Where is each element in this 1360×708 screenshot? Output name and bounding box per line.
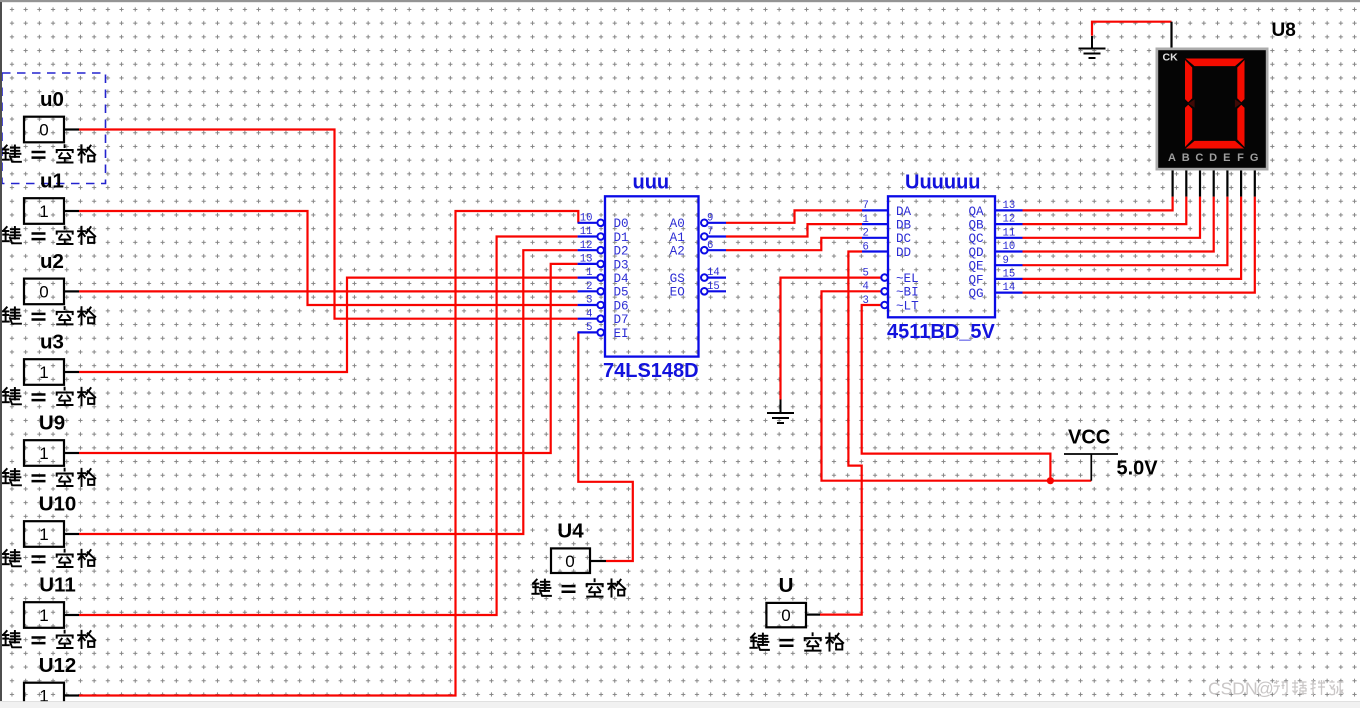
svg-text:5.0V: 5.0V (1117, 458, 1159, 480)
svg-text:14: 14 (1003, 282, 1016, 294)
svg-text:G: G (1250, 152, 1259, 164)
4511 pin 11 QC (995, 237, 1023, 239)
svg-text:15: 15 (1003, 269, 1016, 281)
4511 pin 5 ~EL (881, 274, 888, 281)
svg-text:QG: QG (969, 287, 984, 301)
74LS148 pin 3 D6 (578, 304, 597, 306)
switch U4 (key=space) (532, 519, 625, 596)
svg-text:4511BD_5V: 4511BD_5V (887, 321, 996, 343)
wire 4511 QA to display A (1023, 197, 1173, 211)
svg-text:C: C (1195, 152, 1203, 164)
svg-text:6: 6 (863, 241, 869, 253)
svg-text:CK: CK (1163, 51, 1179, 63)
svg-text:U8: U8 (1272, 20, 1296, 41)
4511 pin 14 QG (995, 292, 1023, 294)
svg-text:15: 15 (707, 281, 720, 293)
IC U5 74LS148D priority encoder (578, 172, 726, 383)
svg-text:10: 10 (1003, 241, 1016, 253)
svg-text:0: 0 (781, 606, 790, 625)
74LS148 pin 6 A2 (708, 249, 726, 251)
svg-text:D6: D6 (614, 299, 629, 313)
svg-text:14: 14 (707, 267, 720, 279)
wire 4511 QD to display D (1023, 197, 1214, 252)
svg-text:B: B (1182, 152, 1190, 164)
display CK pin lead (1170, 22, 1172, 48)
wire u2 switch to 74LS148 D5 (pin 2) (79, 290, 578, 292)
svg-text:VCC: VCC (1068, 427, 1110, 449)
svg-text:U9: U9 (39, 412, 65, 435)
wire u3 switch to 74LS148 D4 (pin 1) (79, 278, 578, 372)
svg-text:A: A (1168, 152, 1176, 164)
svg-text:DA: DA (896, 205, 912, 219)
svg-text:1: 1 (863, 214, 869, 226)
IC U7 4511BD_5V BCD to 7-seg decoder (862, 172, 1023, 344)
svg-text:QB: QB (969, 219, 985, 233)
svg-text:7: 7 (707, 226, 713, 238)
svg-text:QC: QC (969, 232, 985, 246)
switch U12 (SPDT key=space) (2, 654, 95, 708)
svg-text:4: 4 (586, 308, 592, 320)
svg-text:u0: u0 (40, 88, 64, 111)
svg-text:12: 12 (1003, 214, 1016, 226)
svg-text:EI: EI (614, 327, 629, 341)
4511 pin 15 QF (995, 278, 1023, 280)
display segment E (lit) (1185, 105, 1192, 147)
svg-text:~EL: ~EL (896, 272, 919, 286)
switch u2 (SPDT key=space) (2, 250, 95, 324)
display pin C lead (1199, 171, 1201, 197)
svg-text:Uuuuuu: Uuuuuu (905, 172, 981, 194)
wire 74LS148 A2 to 4511 DC (726, 238, 862, 250)
switch u3 (SPDT key=space) (2, 331, 95, 405)
svg-text:QF: QF (969, 273, 984, 287)
switch U11 (SPDT key=space) (2, 574, 95, 648)
display segment G (unlit) right end (1235, 99, 1241, 108)
svg-text:1: 1 (39, 202, 48, 221)
svg-text:0: 0 (39, 121, 48, 140)
watermark CSDN (1208, 679, 1344, 699)
display pin B lead (1185, 171, 1187, 197)
74LS148 pin 13 D3 (578, 263, 597, 265)
74LS148 pin 12 D2 (578, 249, 597, 251)
svg-text:9: 9 (1003, 255, 1009, 267)
svg-text:U10: U10 (39, 493, 77, 516)
74LS148 pin 2 D5 (578, 290, 597, 292)
4511 pin 9 QE (995, 264, 1023, 266)
svg-text:u3: u3 (40, 331, 64, 354)
svg-text:7: 7 (863, 200, 869, 212)
svg-text:QE: QE (969, 260, 984, 274)
svg-text:u1: u1 (40, 170, 64, 193)
display pin E lead (1226, 171, 1228, 197)
wire 4511 QC to display C (1023, 197, 1201, 238)
ground symbol below 4511 (767, 400, 794, 423)
svg-text:1: 1 (586, 267, 592, 279)
svg-text:F: F (1237, 152, 1244, 164)
display segment G (unlit) left end (1188, 99, 1194, 108)
svg-text:U12: U12 (39, 654, 77, 677)
svg-text:D3: D3 (614, 258, 629, 272)
svg-text:6: 6 (707, 240, 713, 252)
wire 4511 QE to display E (1023, 197, 1228, 266)
svg-text:2: 2 (586, 281, 592, 293)
svg-text:QD: QD (969, 246, 984, 260)
svg-text:@: @ (1256, 679, 1274, 699)
wire u1 switch to 74LS148 D6 (pin 3) (79, 211, 578, 305)
svg-text:A0: A0 (670, 217, 685, 231)
ground symbol near display CK (1078, 36, 1105, 58)
VCC power symbol 5.0V (1064, 427, 1158, 481)
74LS148 pin 11 D1 (578, 235, 597, 237)
wire 4511 ~LT (pin 3) to VCC rail (862, 305, 1051, 481)
4511 pin 6 DD (862, 250, 888, 252)
svg-text:0: 0 (565, 552, 574, 571)
wire 4511 ~EL (pin 5) to ground (781, 278, 881, 400)
display pin G lead (1254, 171, 1256, 197)
bottom scrollbar strip (0, 701, 1360, 708)
svg-text:u2: u2 (40, 250, 64, 273)
svg-text:~BI: ~BI (896, 286, 919, 300)
wire U9 switch to 74LS148 D3 (pin 13) (79, 264, 578, 453)
svg-text:1: 1 (39, 444, 48, 463)
wire U12 switch to 74LS148 D0 (pin 10) (79, 211, 578, 696)
svg-text:2: 2 (863, 228, 869, 240)
svg-text:D7: D7 (614, 313, 629, 327)
svg-text:DB: DB (896, 219, 912, 233)
svg-text:EO: EO (670, 286, 685, 300)
display segment F (lit) (1185, 60, 1192, 102)
switch U10 (SPDT key=space) (2, 493, 95, 567)
top window edge (0, 0, 1360, 2)
wire 4511 QG to display G (1023, 197, 1255, 293)
switch u0 (SPDT key=space) (2, 88, 95, 162)
switch U9 (SPDT key=space) (2, 412, 95, 486)
74LS148 pin 1 D4 (578, 277, 597, 279)
svg-text:D: D (1209, 152, 1217, 164)
svg-text:U4: U4 (557, 519, 584, 542)
svg-text:5: 5 (586, 322, 592, 334)
svg-text:5: 5 (863, 267, 869, 279)
svg-text:GS: GS (670, 272, 685, 286)
svg-text:74LS148D: 74LS148D (603, 360, 699, 382)
74LS148 pin 15 EO (708, 290, 726, 292)
svg-text:1: 1 (39, 525, 48, 544)
svg-text:A2: A2 (670, 245, 685, 259)
wire display CK to ground (1092, 22, 1172, 36)
4511 pin 1 DB (862, 223, 888, 225)
74LS148 pin 9 A0 (708, 222, 726, 224)
selection box around switch u0 (2, 73, 106, 184)
svg-text:D2: D2 (614, 245, 629, 259)
74LS148 pin 5 EI (578, 331, 597, 333)
svg-text:12: 12 (580, 240, 593, 252)
seven-segment display U8 (1156, 22, 1269, 197)
display segment B (lit) (1237, 60, 1244, 102)
display pin D lead (1213, 171, 1215, 197)
svg-text:3: 3 (586, 295, 592, 307)
4511 pin 2 DC (862, 237, 888, 239)
svg-text:DD: DD (896, 246, 911, 260)
svg-text:uuu: uuu (633, 172, 670, 194)
wire 4511 QF to display F (1023, 197, 1242, 279)
svg-text:3: 3 (863, 295, 869, 307)
svg-text:U11: U11 (39, 574, 75, 597)
junction dot at VCC rail (1047, 477, 1054, 484)
svg-text:QA: QA (969, 205, 985, 219)
left window edge (0, 2, 2, 701)
74LS148 pin 4 D7 (578, 318, 597, 320)
svg-text:1: 1 (39, 363, 48, 382)
display pin A lead (1171, 171, 1173, 197)
wire u0 switch to 74LS148 D7 (pin 4) (79, 130, 578, 319)
74LS148 pin 14 GS (708, 277, 726, 279)
svg-text:DC: DC (896, 232, 912, 246)
wire U10 switch to 74LS148 D2 (pin 12) (79, 250, 578, 534)
wire 4511 ~BI (pin 4) to VCC rail (822, 291, 1092, 480)
svg-text:10: 10 (580, 212, 593, 224)
74LS148 pin 7 A1 (708, 235, 726, 237)
svg-text:D5: D5 (614, 286, 629, 300)
svg-text:1: 1 (39, 606, 48, 625)
svg-text:D1: D1 (614, 231, 629, 245)
4511 pin 3 ~LT (881, 302, 888, 309)
svg-text:11: 11 (1003, 227, 1016, 239)
svg-text:CSDN: CSDN (1208, 679, 1258, 699)
74LS148 pin 10 D0 (578, 222, 597, 224)
svg-text:9: 9 (707, 212, 713, 224)
svg-text:D0: D0 (614, 217, 629, 231)
display segment A (lit) (1186, 59, 1245, 67)
svg-text:E: E (1223, 152, 1230, 164)
wire U4 switch to 74LS148 EI (pin 5) (578, 332, 633, 561)
4511 pin 12 QB (995, 223, 1023, 225)
wire 4511 QB to display B (1023, 197, 1187, 225)
4511 pin 13 QA (995, 209, 1023, 211)
svg-text:U: U (779, 574, 794, 597)
svg-text:~LT: ~LT (896, 299, 919, 313)
svg-text:0: 0 (39, 283, 48, 302)
svg-text:11: 11 (580, 226, 593, 238)
svg-text:A1: A1 (670, 231, 685, 245)
4511 pin 4 ~BI (881, 288, 888, 295)
display segment D (lit) (1186, 141, 1245, 149)
wire U11 switch to 74LS148 D1 (pin 11) (79, 237, 578, 616)
wire U switch to 4511 DD (pin 6) (820, 252, 862, 615)
wire 74LS148 A0 to 4511 DA (726, 210, 862, 222)
svg-text:D4: D4 (614, 272, 629, 286)
svg-text:13: 13 (580, 254, 593, 266)
switch u1 (SPDT key=space) (2, 170, 95, 244)
svg-text:4: 4 (863, 281, 869, 293)
switch U (key=space) (750, 574, 843, 651)
4511 pin 10 QD (995, 250, 1023, 252)
wire 74LS148 A1 to 4511 DB (726, 224, 862, 236)
4511 pin 7 DA (862, 209, 888, 211)
display pin F lead (1240, 171, 1242, 197)
display segment C (lit) (1237, 105, 1244, 147)
svg-text:13: 13 (1003, 200, 1016, 212)
